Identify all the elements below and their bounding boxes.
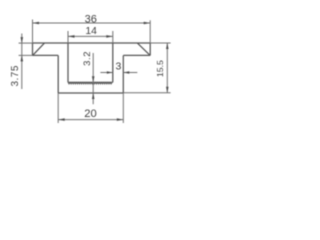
svg-text:14: 14 xyxy=(85,26,97,37)
svg-text:15.5: 15.5 xyxy=(155,60,165,77)
svg-text:20: 20 xyxy=(84,108,96,120)
svg-text:3.75: 3.75 xyxy=(10,65,21,86)
svg-text:3.2: 3.2 xyxy=(82,51,93,66)
svg-text:3: 3 xyxy=(115,61,121,73)
svg-text:36: 36 xyxy=(85,13,97,25)
